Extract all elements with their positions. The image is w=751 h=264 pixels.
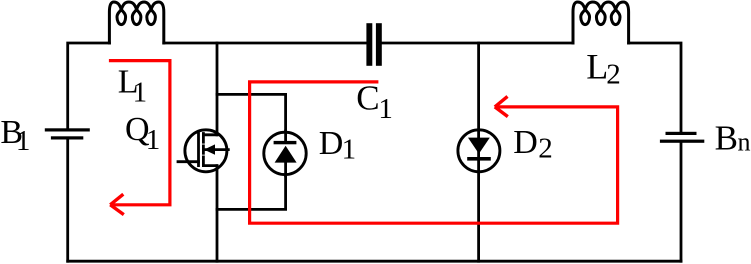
transistor Q1 <box>178 130 228 172</box>
current loop 1 arrowhead <box>110 194 124 214</box>
svg-text:1: 1 <box>378 93 393 125</box>
battery Bn <box>660 132 704 143</box>
svg-text:D: D <box>513 124 538 161</box>
current loop 2 arrowhead <box>495 96 508 116</box>
svg-text:1: 1 <box>342 133 357 165</box>
svg-text:L: L <box>586 46 608 86</box>
wire Q1 drain vertical <box>216 43 219 135</box>
capacitor C1 <box>366 23 381 66</box>
wire D1 branch top <box>217 94 286 131</box>
inductor L2 <box>573 2 629 43</box>
wire left vertical below B1 <box>66 140 69 262</box>
wire top rail left segment <box>68 43 110 129</box>
svg-text:D: D <box>319 125 344 162</box>
current loop 1 path <box>109 61 170 205</box>
svg-text:1: 1 <box>16 125 31 157</box>
svg-text:C: C <box>356 79 379 118</box>
svg-text:1: 1 <box>146 124 161 156</box>
wire top rail far right segment <box>629 43 681 132</box>
wire right vertical below Bn <box>680 143 683 261</box>
wire D2 branch vertical <box>477 43 480 261</box>
svg-text:B: B <box>715 119 738 158</box>
battery B1 <box>45 128 90 139</box>
wire top rail right segment <box>382 42 573 45</box>
diode D1 <box>264 131 306 176</box>
wire D1 branch bottom <box>217 176 286 210</box>
wire Q1 source vertical <box>216 166 219 262</box>
wire top rail middle segment <box>164 42 366 45</box>
current loop 2 path <box>250 82 618 223</box>
svg-text:1: 1 <box>133 77 148 109</box>
svg-text:2: 2 <box>538 133 553 165</box>
svg-text:2: 2 <box>606 59 621 91</box>
svg-text:n: n <box>738 128 751 157</box>
inductor L1 <box>109 2 163 43</box>
wire bottom rail <box>68 260 681 263</box>
diode D2 <box>458 130 500 172</box>
